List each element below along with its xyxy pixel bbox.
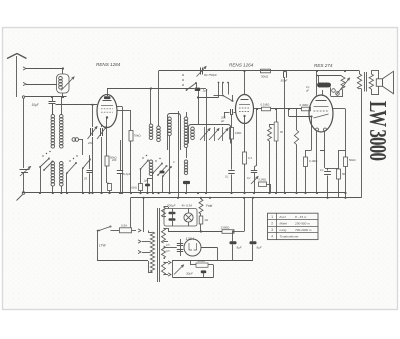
svg-text:0,3: 0,3 [248, 156, 252, 160]
svg-text:0,5: 0,5 [166, 243, 170, 247]
svg-text:8 - 33 m: 8 - 33 m [295, 215, 307, 219]
svg-text:600Ω: 600Ω [198, 259, 206, 263]
svg-text:8μF: 8μF [237, 246, 242, 250]
svg-text:3μF: 3μF [203, 89, 208, 93]
svg-text:Lang: Lang [280, 228, 287, 232]
svg-text:30kΩ: 30kΩ [261, 75, 269, 79]
svg-text:50: 50 [342, 172, 346, 176]
svg-text:25: 25 [83, 177, 88, 181]
svg-text:0,1MΩ: 0,1MΩ [309, 159, 317, 163]
svg-text:0,1: 0,1 [225, 175, 229, 179]
svg-text:3: 3 [271, 228, 273, 232]
svg-text:1MΩ: 1MΩ [235, 131, 242, 135]
svg-text:0,2μF: 0,2μF [123, 172, 131, 176]
svg-text:60-750pF: 60-750pF [204, 73, 217, 77]
svg-text:0,2MΩ: 0,2MΩ [259, 178, 267, 182]
svg-text:pF: pF [220, 119, 225, 123]
svg-text:1: 1 [271, 215, 273, 219]
svg-text:Mittel: Mittel [280, 222, 288, 226]
svg-text:70kΩ: 70kΩ [134, 134, 142, 138]
svg-text:500μF: 500μF [167, 204, 176, 208]
svg-text:250-500 m: 250-500 m [294, 222, 310, 226]
svg-text:0,3MΩ: 0,3MΩ [300, 103, 310, 107]
svg-text:0,1: 0,1 [320, 168, 324, 172]
svg-text:8μF: 8μF [257, 246, 262, 250]
svg-text:2Ω: 2Ω [205, 218, 209, 222]
svg-text:0,1: 0,1 [247, 176, 251, 180]
svg-text:Tonabnehmer: Tonabnehmer [280, 235, 300, 239]
svg-text:4V 0,5A: 4V 0,5A [182, 204, 193, 208]
svg-text:0,5A: 0,5A [121, 224, 127, 228]
svg-text:RES 274: RES 274 [314, 63, 333, 68]
svg-text:700-2000 m: 700-2000 m [295, 228, 312, 232]
svg-text:0,1MΩ: 0,1MΩ [261, 103, 271, 107]
svg-text:30μF: 30μF [186, 272, 193, 276]
svg-text:LTW: LTW [99, 244, 106, 248]
svg-text:μF: μF [305, 88, 309, 92]
svg-text:LW 3000: LW 3000 [364, 101, 392, 161]
svg-text:200: 200 [112, 158, 117, 162]
svg-text:50μF: 50μF [281, 79, 288, 83]
svg-text:1300Ω: 1300Ω [221, 226, 231, 230]
svg-text:Feld: Feld [206, 204, 212, 208]
svg-text:RENS 1264: RENS 1264 [229, 63, 254, 68]
svg-text:4: 4 [271, 235, 273, 239]
svg-text:0,5: 0,5 [166, 249, 170, 253]
svg-text:0,5kΩ: 0,5kΩ [130, 186, 137, 190]
svg-text:10μF: 10μF [32, 103, 40, 107]
svg-text:50kΩ: 50kΩ [349, 158, 356, 162]
svg-text:2: 2 [271, 222, 273, 226]
svg-text:Kurz: Kurz [280, 215, 287, 219]
svg-text:RENS 1284: RENS 1284 [96, 62, 121, 67]
svg-text:200: 200 [87, 141, 93, 145]
